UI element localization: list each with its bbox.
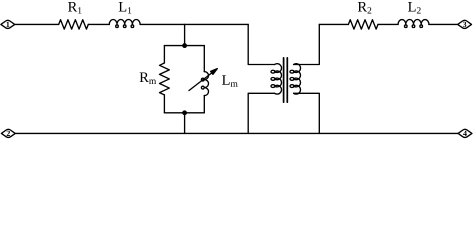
transformer core line left: [283, 58, 285, 102]
wire shunt top bar: [164, 45, 204, 47]
junction dot bottom: [183, 111, 187, 115]
label R2: [358, 2, 371, 13]
resistor Rm: [160, 63, 170, 95]
wire Rm bottom lead: [163, 95, 165, 113]
wire Lm top lead: [203, 46, 205, 72]
wire secondary top corner: [294, 24, 320, 64]
junction dot top: [183, 44, 187, 48]
resistor R2: [348, 20, 378, 29]
arrow through Lm: [189, 69, 217, 91]
resistor R1: [59, 20, 89, 29]
label R1: [68, 2, 81, 13]
transformer secondary winding: [290, 64, 301, 94]
inductor L1: [109, 19, 140, 27]
wire Lm bottom lead: [203, 96, 205, 113]
wire secondary to R2: [319, 23, 348, 25]
terminal 2: [1, 129, 15, 137]
wire shunt bottom bar: [164, 112, 204, 114]
wire shunt to bottom rail: [184, 113, 186, 134]
terminal 3: [458, 20, 472, 28]
transformer core line right: [286, 58, 288, 102]
wire Rm top lead: [163, 46, 165, 63]
wire R1 to L1: [88, 23, 109, 25]
label L1: [119, 2, 132, 13]
inductor Lm: [201, 72, 208, 96]
terminal digit 4: [463, 131, 467, 136]
label L2: [408, 2, 421, 13]
terminal 4: [458, 129, 472, 137]
terminal digit 3: [463, 22, 466, 27]
inductor L2: [398, 19, 429, 27]
wire L2 to terminal 3: [429, 23, 458, 25]
label Rm: [140, 73, 156, 84]
wire terminal1 to R1: [15, 23, 59, 25]
wire secondary bottom corner: [294, 93, 320, 133]
wire shunt drop from top rail: [184, 24, 186, 45]
terminal digit 1: [6, 22, 9, 27]
bottom rail wire: [15, 132, 458, 134]
wire primary top corner: [248, 24, 274, 64]
terminal digit 2: [7, 131, 10, 136]
transformer primary winding: [271, 64, 282, 94]
terminal 1: [1, 20, 15, 28]
wire primary bottom corner: [248, 93, 274, 133]
wire R2 to L2: [378, 23, 398, 25]
wire L1 to primary corner: [140, 23, 248, 25]
label Lm: [222, 75, 238, 86]
